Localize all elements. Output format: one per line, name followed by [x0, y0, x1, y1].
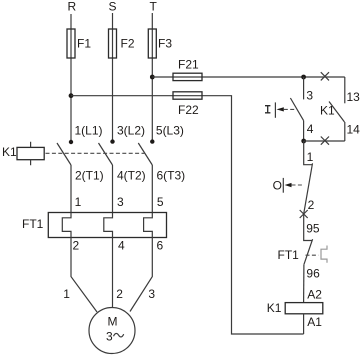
- svg-text:A2: A2: [307, 288, 322, 302]
- svg-text:K1: K1: [267, 301, 282, 315]
- svg-text:96: 96: [306, 266, 320, 280]
- svg-text:2: 2: [308, 198, 315, 212]
- svg-text:3: 3: [106, 330, 113, 344]
- svg-text:4: 4: [118, 238, 125, 252]
- svg-text:6(T3): 6(T3): [157, 168, 186, 182]
- svg-text:14: 14: [347, 123, 361, 137]
- svg-text:R: R: [68, 0, 77, 14]
- svg-text:5: 5: [157, 195, 164, 209]
- svg-text:3: 3: [117, 195, 124, 209]
- svg-text:3(L2): 3(L2): [117, 123, 145, 137]
- svg-text:FT1: FT1: [278, 248, 300, 262]
- svg-text:2(T1): 2(T1): [75, 168, 104, 182]
- svg-text:S: S: [109, 0, 117, 14]
- svg-text:3: 3: [148, 287, 155, 301]
- svg-text:4: 4: [307, 122, 314, 136]
- svg-text:F22: F22: [178, 103, 199, 117]
- svg-text:K1: K1: [2, 145, 17, 159]
- svg-text:95: 95: [306, 221, 320, 235]
- svg-text:M: M: [108, 314, 118, 328]
- svg-text:A1: A1: [307, 315, 322, 329]
- svg-text:K1: K1: [320, 104, 335, 118]
- svg-text:1: 1: [75, 195, 82, 209]
- svg-text:1(L1): 1(L1): [75, 123, 103, 137]
- svg-text:F3: F3: [158, 36, 172, 50]
- svg-text:2: 2: [116, 287, 123, 301]
- svg-text:F1: F1: [77, 36, 91, 50]
- svg-text:F2: F2: [121, 36, 135, 50]
- svg-text:5(L3): 5(L3): [156, 123, 184, 137]
- svg-text:FT1: FT1: [22, 217, 44, 231]
- svg-text:O: O: [273, 178, 282, 192]
- svg-text:6: 6: [157, 238, 164, 252]
- svg-text:13: 13: [347, 90, 361, 104]
- svg-text:1: 1: [63, 287, 70, 301]
- svg-text:2: 2: [73, 238, 80, 252]
- svg-text:3: 3: [306, 88, 313, 102]
- svg-text:F21: F21: [178, 58, 199, 72]
- svg-text:1: 1: [307, 150, 314, 164]
- svg-text:4(T2): 4(T2): [117, 168, 146, 182]
- svg-text:T: T: [150, 0, 158, 14]
